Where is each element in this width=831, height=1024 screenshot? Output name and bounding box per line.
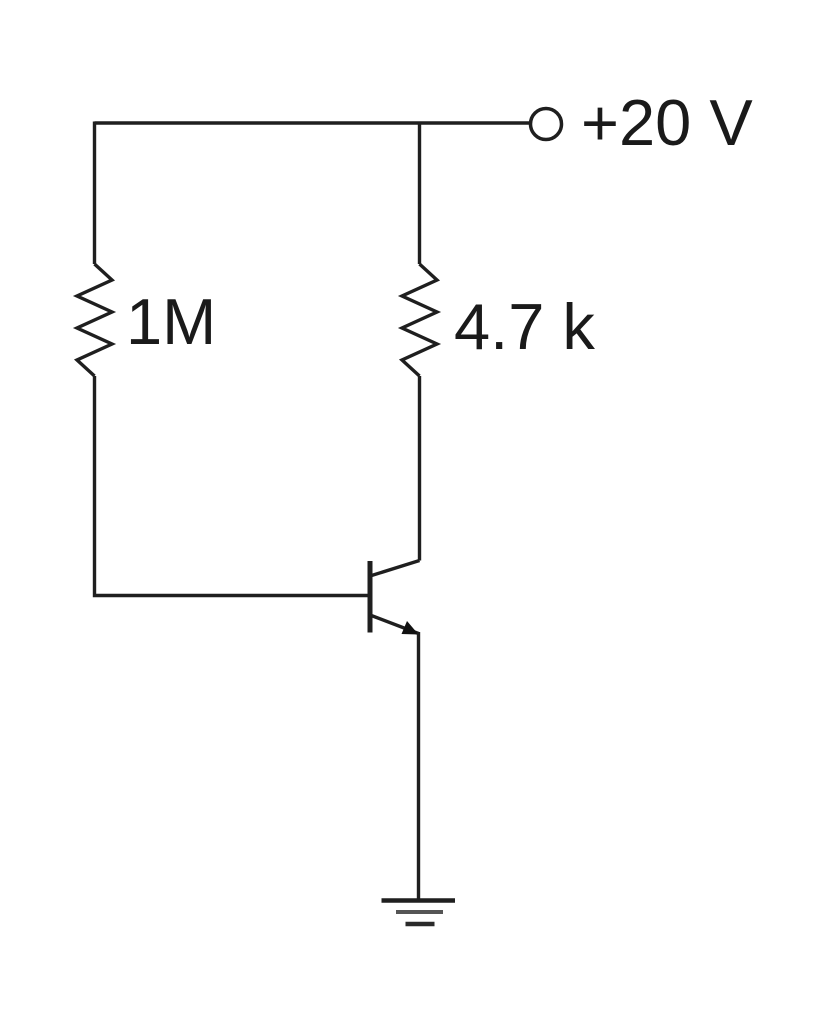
wire: R1 bottom down and right to base [95,376,370,596]
wire: top supply rail [95,121,530,124]
transistor Q1 collector diagonal [370,561,420,577]
svg-text:4.7 k: 4.7 k [454,290,595,363]
wire: emitter down to ground [417,632,420,901]
transistor Q1 emitter arrowhead [402,621,419,635]
transistor Q1 base bar [368,561,373,633]
svg-text:+20 V: +20 V [581,86,753,159]
wire: R2 bottom down to collector [418,376,421,561]
resistor R2 (zigzag) [402,264,437,376]
svg-text:1M: 1M [126,285,216,358]
terminal: +20 V supply node (open circle) [531,109,562,140]
ground: middle bar [396,910,443,914]
ground: top bar [382,898,456,903]
wire: rail down to R2 top [418,122,421,265]
ground: bottom bar [406,922,435,927]
resistor R1 (zigzag) [77,264,112,376]
transistor Q1 emitter diagonal [370,615,419,634]
wire: rail down to R1 top [93,122,96,265]
